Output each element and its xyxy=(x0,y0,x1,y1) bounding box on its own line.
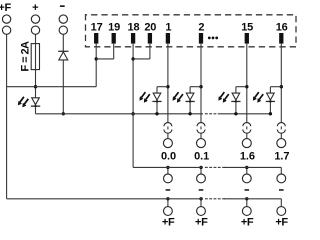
svg-text:17: 17 xyxy=(91,21,103,33)
svg-text:2: 2 xyxy=(198,21,204,33)
svg-text:+F: +F xyxy=(275,217,288,228)
svg-text:1: 1 xyxy=(165,21,171,33)
svg-text:+F: +F xyxy=(162,217,175,228)
svg-text:+F: +F xyxy=(195,217,208,228)
svg-text:1.6: 1.6 xyxy=(240,150,255,162)
svg-text:+F: +F xyxy=(0,2,11,14)
svg-text:+: + xyxy=(32,2,38,14)
svg-text:+F: +F xyxy=(241,217,254,228)
svg-text:16: 16 xyxy=(276,21,288,33)
svg-text:15: 15 xyxy=(241,21,253,33)
svg-text:1.7: 1.7 xyxy=(274,150,289,162)
svg-text:F = 2A: F = 2A xyxy=(20,41,32,72)
svg-text:0.1: 0.1 xyxy=(194,150,209,162)
svg-text:20: 20 xyxy=(144,21,156,33)
svg-text:0.0: 0.0 xyxy=(161,150,176,162)
svg-text:19: 19 xyxy=(108,21,120,33)
svg-text:18: 18 xyxy=(128,21,140,33)
